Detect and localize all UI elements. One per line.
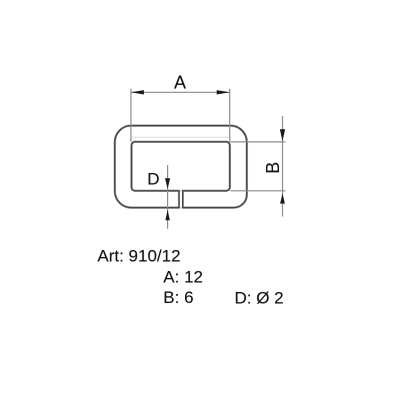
extension line B bottom: [230, 190, 285, 192]
arrow A right: [217, 90, 230, 94]
arrow D top (points down): [165, 178, 170, 189]
extension line B top: [230, 141, 285, 143]
arrow B top (points down): [280, 129, 285, 141]
svg-text:D: D: [147, 170, 159, 189]
extension line A left: [130, 89, 132, 142]
svg-text:D: Ø 2: D: Ø 2: [235, 288, 284, 307]
svg-text:A: A: [174, 72, 186, 92]
extension line A right: [229, 89, 231, 142]
faint construction line inside top bar: [131, 136, 230, 138]
svg-text:Art: 910/12: Art: 910/12: [97, 247, 180, 266]
dimension line A: [131, 91, 230, 93]
svg-text:A: 12: A: 12: [163, 268, 203, 287]
white core of slit between ring ends: [180, 192, 182, 207]
arrow B bottom (points up): [280, 194, 285, 204]
dimension line D: [167, 165, 169, 229]
ring body (rectangular wire loop with slit): [115, 126, 247, 208]
svg-text:B: 6: B: 6: [163, 288, 193, 307]
arrow D bottom (points up): [165, 210, 169, 220]
arrow A left: [131, 90, 144, 94]
svg-text:B: B: [263, 162, 283, 174]
dimension line B: [282, 116, 284, 217]
